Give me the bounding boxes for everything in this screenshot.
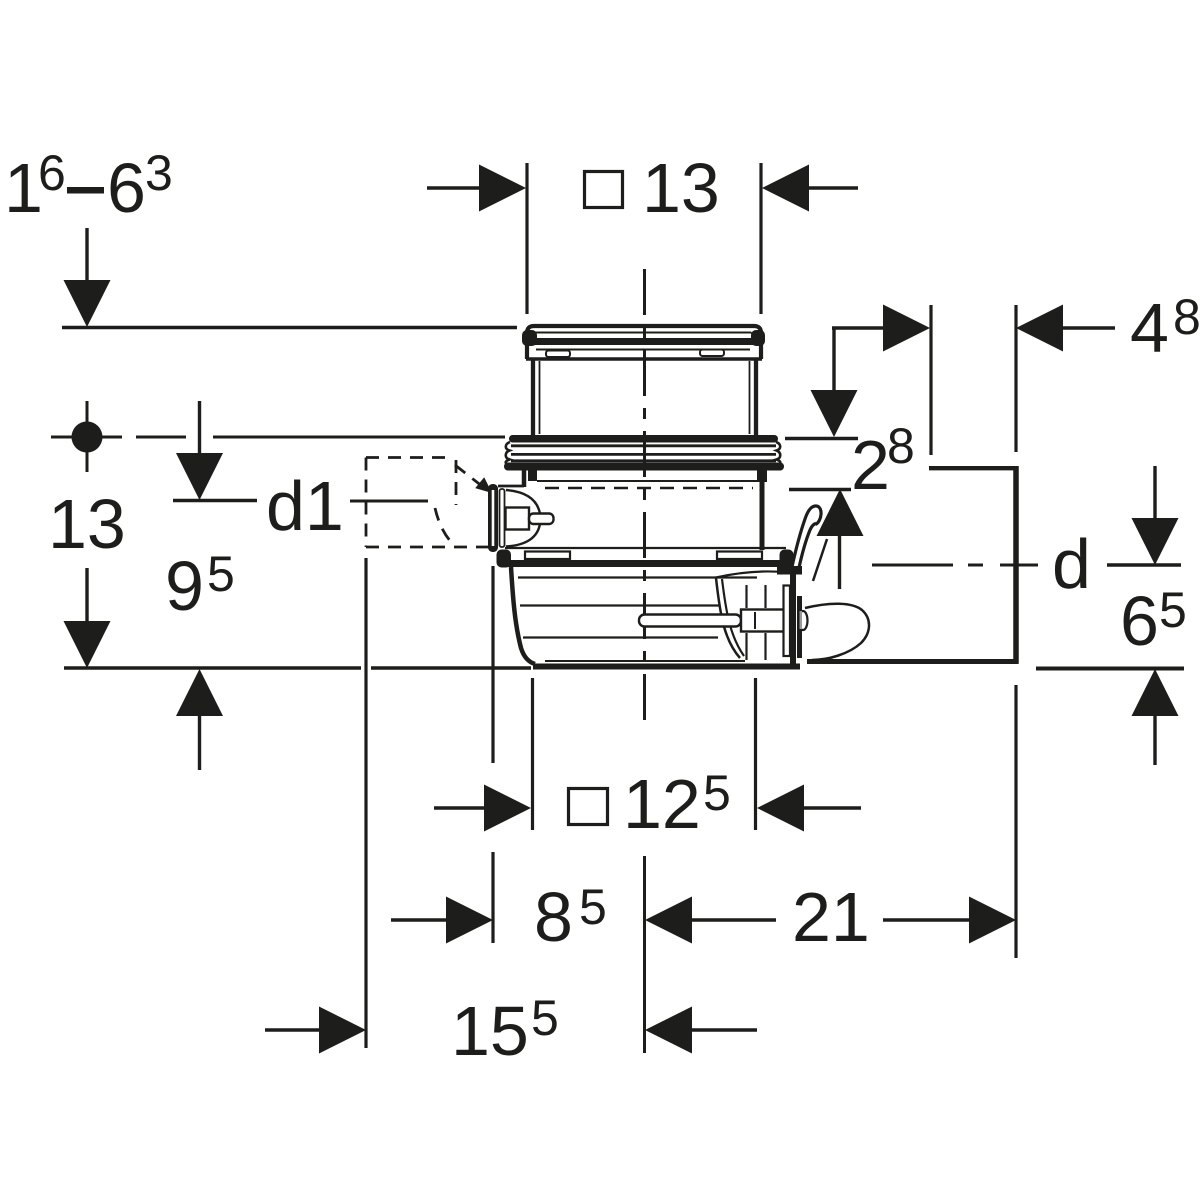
up arrow under 28 <box>817 489 864 536</box>
d1 leader arrowhead <box>475 477 492 493</box>
vertical centerline of fixture <box>643 269 646 720</box>
right pipe right edge <box>1013 466 1019 664</box>
crosshair dot <box>72 422 103 453</box>
horizontal centerline y437 <box>136 436 186 439</box>
extension line 21 right (x1016) <box>1014 685 1017 958</box>
dimension sq125 right arrow <box>757 785 804 832</box>
dimension sq13 left arrow <box>427 186 480 189</box>
dimension 21 right arrow <box>883 918 970 921</box>
extension line 85 left (x493) <box>491 566 494 763</box>
label sq125 <box>623 765 731 843</box>
svg-text:13: 13 <box>48 485 126 563</box>
svg-text:5: 5 <box>207 546 235 602</box>
dimension sq13 label <box>642 149 720 227</box>
label 65 <box>1120 582 1187 660</box>
clamp bar <box>797 596 802 658</box>
dimension 48 right extension line <box>1014 305 1017 452</box>
hidden dashed interior line <box>545 487 753 489</box>
floor reference line right <box>1036 667 1184 671</box>
dimension sq125 left arrow <box>434 806 485 809</box>
dimension 13 bottom arrow <box>85 568 88 622</box>
svg-text:5: 5 <box>703 765 731 821</box>
svg-text:8: 8 <box>534 878 573 956</box>
dimension 48 left extension line <box>929 305 932 455</box>
sump left wall <box>511 567 535 664</box>
dimension 48 right arrow <box>1016 305 1063 352</box>
dimension 28 down arrow <box>832 328 835 391</box>
upper collar walls <box>531 359 535 437</box>
svg-text:15: 15 <box>451 992 529 1070</box>
d1 dashed box <box>366 458 490 548</box>
sump right wall <box>790 574 796 669</box>
lower flange <box>505 547 786 549</box>
svg-text:9: 9 <box>165 547 204 625</box>
svg-text:3: 3 <box>145 145 173 201</box>
dimension 65 down arrow <box>1153 466 1156 519</box>
label 13 left <box>48 485 126 563</box>
dimension 65 up arrow <box>1132 669 1179 716</box>
right pipe bottom edge <box>807 659 1019 664</box>
dimension sq13 right extension line <box>759 163 762 314</box>
label 85 <box>534 878 607 956</box>
upper collar top flange <box>522 326 765 359</box>
svg-text:6: 6 <box>107 149 146 227</box>
label 21 <box>792 878 870 956</box>
left inlet top edge <box>498 485 524 488</box>
sump interior lines <box>518 576 757 578</box>
left inlet socket cap <box>488 484 498 552</box>
shared middle arrow <box>645 897 692 944</box>
floor reference line left <box>64 666 361 670</box>
svg-text:5: 5 <box>579 879 607 935</box>
label d right <box>1052 525 1091 603</box>
label 16-63 <box>4 145 173 227</box>
tick at flange top level <box>785 437 858 440</box>
d centerline <box>872 564 953 567</box>
svg-text:d1: d1 <box>266 467 344 545</box>
left inlet plug stem <box>529 514 554 525</box>
svg-text:6: 6 <box>1120 582 1159 660</box>
right pipe top edge <box>929 466 1017 470</box>
extension line 155 (x366) <box>364 558 367 1048</box>
svg-text:13: 13 <box>642 149 720 227</box>
svg-text:8: 8 <box>887 418 915 474</box>
d1 down arrow <box>198 401 201 454</box>
svg-text:d: d <box>1052 525 1091 603</box>
outlet plug body <box>741 610 784 632</box>
top reference line <box>62 326 517 330</box>
label 95 <box>165 546 235 625</box>
svg-text:6: 6 <box>38 145 66 201</box>
outlet sleeve <box>805 604 869 660</box>
label 28 <box>851 418 915 504</box>
sump bottom band <box>533 664 800 670</box>
dimension 95 up arrow <box>176 669 223 716</box>
dimension 48 left arrow <box>832 326 884 329</box>
label d1 <box>266 467 344 545</box>
outlet gasket strip <box>784 586 791 657</box>
dimension 85 left arrow <box>391 918 447 921</box>
left inlet plug body <box>506 508 530 530</box>
extension lines sq125 <box>531 678 534 830</box>
svg-text:4: 4 <box>1130 289 1169 367</box>
svg-text:5: 5 <box>1159 582 1187 638</box>
svg-text:21: 21 <box>792 878 870 956</box>
body walls <box>522 470 527 487</box>
svg-text:12: 12 <box>623 765 701 843</box>
label 48 <box>1130 289 1200 367</box>
clamp hook <box>792 506 822 569</box>
d1 leader line <box>350 500 428 503</box>
lower flange clips <box>525 552 570 560</box>
left inlet socket bell <box>506 490 541 547</box>
dimension sq13 right arrow <box>762 165 809 212</box>
label 155 <box>451 990 559 1070</box>
clamp screw <box>799 611 808 630</box>
ribbed press-seal flange <box>504 435 784 471</box>
dimension 155 right arrow <box>645 1007 692 1054</box>
svg-text:5: 5 <box>531 990 559 1046</box>
65 top tick <box>1107 563 1181 566</box>
dimension sq13 left extension line <box>525 163 528 314</box>
tick under 28 <box>789 488 851 491</box>
clamp slanted edge <box>813 539 827 581</box>
outlet plug stem <box>639 615 741 627</box>
funnel dome <box>716 571 789 577</box>
body top edge <box>537 480 767 482</box>
svg-text:8: 8 <box>1173 289 1200 345</box>
lower flange band <box>505 560 788 567</box>
outlet tube walls <box>745 585 747 608</box>
arrow 16-63 down <box>85 228 88 281</box>
left inlet socket ring <box>500 489 505 547</box>
dimension 155 left arrow <box>265 1028 320 1031</box>
